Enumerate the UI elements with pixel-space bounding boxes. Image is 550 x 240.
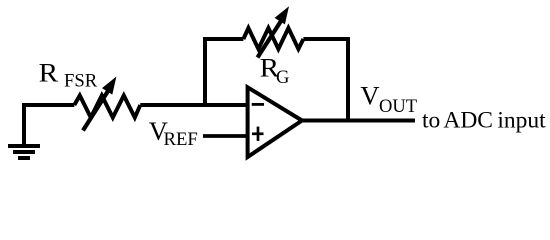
ground (8, 105, 40, 158)
resistor R_FSR (74, 96, 140, 118)
wire R_G to feedback down-leg (303, 39, 348, 121)
wire R_FSR to op-amp minus input (140, 103, 247, 107)
wire V_REF to plus input (203, 134, 248, 138)
op-amp U1 (248, 87, 302, 157)
wire ground to R_FSR (24, 105, 74, 107)
output wire (301, 119, 415, 123)
node junction feedback (203, 39, 207, 105)
svg-text:R: R (39, 57, 59, 87)
svg-text:OUT: OUT (379, 97, 417, 117)
svg-text:to ADC input: to ADC input (422, 108, 546, 134)
op-amp plus pin label (252, 127, 264, 141)
svg-text:FSR: FSR (64, 70, 98, 91)
resistor R_G (243, 28, 303, 49)
svg-text:REF: REF (164, 129, 198, 150)
svg-text:G: G (276, 68, 289, 88)
op-amp minus pin label (252, 103, 264, 106)
svg-text:V: V (360, 81, 379, 111)
R_G wiper arrow (258, 6, 290, 57)
wire top left to R_G (203, 37, 243, 41)
R_FSR wiper arrow (83, 77, 116, 131)
